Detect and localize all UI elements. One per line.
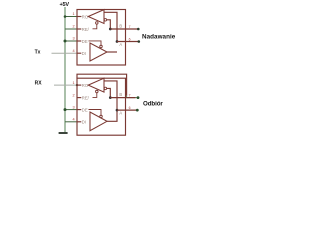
node B2 end dot [137, 96, 140, 99]
U2 receiver A-input wire [104, 81, 117, 110]
U1 DE enable line [89, 41, 102, 45]
U2 pin 4 stub [77, 121, 81, 123]
U1 node A junction [116, 40, 119, 43]
svg-text:RX: RX [35, 80, 43, 86]
U1 DE enable bubble [100, 45, 103, 48]
svg-text:A: A [119, 42, 122, 47]
svg-text:2: 2 [72, 25, 74, 29]
wire rail to U2 pin 4 [65, 121, 78, 123]
U1 pin B wire (Nadawanie B) [110, 28, 138, 30]
U1 driver output wire [107, 51, 117, 53]
svg-text:1: 1 [72, 81, 74, 85]
svg-text:+5V: +5V [59, 2, 69, 8]
+5V rail wire [64, 7, 66, 132]
U1 receiver triangle [88, 10, 104, 24]
U1 pin 1 stub [77, 16, 81, 18]
wire +5V rail to U1 pin 1 [65, 16, 81, 18]
U2 pin A wire (Odbior A) [117, 109, 137, 111]
svg-text:A: A [119, 111, 122, 116]
svg-text:7: 7 [129, 25, 131, 29]
U2 receiver triangle [88, 78, 104, 92]
U1 box (MAX485 transmitter) [77, 10, 126, 66]
U2 RE enable bubble [96, 90, 99, 93]
wire loop green tail to node B2 [127, 96, 138, 98]
svg-text:B: B [119, 92, 122, 97]
node B end dot [137, 28, 140, 31]
U2 driver output wire [107, 110, 117, 121]
U1 receiver input bubble [104, 19, 107, 22]
U2 driver triangle [90, 112, 107, 131]
svg-text:Tx: Tx [35, 50, 41, 56]
svg-text:DI: DI [82, 51, 86, 56]
U2 DE enable line [89, 110, 102, 116]
U1 RE enable bubble [96, 22, 99, 25]
U2 RE enable line [93, 93, 97, 98]
U1 receiver A-input wire [104, 12, 117, 41]
U2 node A junction [116, 109, 119, 112]
Tx wire to U1 pin 4 [52, 52, 78, 54]
svg-text:B: B [119, 24, 122, 29]
svg-text:DE: DE [82, 39, 88, 44]
svg-text:1: 1 [72, 12, 74, 16]
svg-text:2: 2 [72, 93, 74, 97]
U1 node B junction [109, 28, 112, 31]
svg-text:6: 6 [129, 37, 131, 41]
U1 pin 2 stub [77, 28, 81, 30]
svg-text:Nadawanie: Nadawanie [142, 33, 176, 40]
junction rail/U2 pin3 [64, 108, 67, 111]
svg-text:3: 3 [72, 105, 74, 109]
U2 DE enable bubble [100, 115, 103, 118]
svg-text:Odbiór: Odbiór [143, 101, 163, 108]
node A2 end dot [136, 109, 139, 112]
svg-text:7: 7 [129, 93, 131, 97]
svg-text:RE/: RE/ [82, 95, 90, 100]
U2 node B junction [109, 96, 112, 99]
wire +5V rail to U1 pin 2 [65, 28, 78, 30]
ground [59, 132, 68, 134]
junction RX/pin1 [76, 84, 78, 86]
svg-text:DI: DI [82, 120, 86, 125]
U2 box (MAX485 receiver) [77, 78, 126, 135]
U2 pin 2 stub [77, 97, 81, 99]
U2 pin B wire (Odbior B) [110, 97, 135, 99]
U2 receiver B-input wire [107, 88, 111, 97]
junction rail/pin1 [64, 15, 67, 18]
node A end dot [138, 40, 141, 43]
RX wire to U2 pin 1 [54, 84, 78, 86]
svg-text:3: 3 [72, 37, 74, 41]
wire U2 pin2/B loop (vertical left) [77, 74, 127, 96]
U1 driver triangle [90, 43, 107, 61]
svg-text:RE/: RE/ [82, 27, 90, 32]
svg-text:6: 6 [129, 106, 131, 110]
wire +5V rail to U2 pin 3 [65, 109, 78, 111]
U1 receiver B-input wire [107, 20, 111, 29]
U1 pin A wire (Nadawanie A) [117, 41, 139, 43]
U1 RE enable line [93, 24, 97, 29]
U1 pin 3 stub [77, 40, 81, 42]
U2 pin 3 stub [77, 109, 81, 111]
U2 pin 1 stub [77, 84, 81, 86]
svg-text:4: 4 [72, 49, 74, 53]
junction rail/pin3 [64, 40, 67, 43]
U1 pin 4 stub [77, 52, 81, 54]
U2 receiver input bubble [104, 87, 107, 90]
svg-text:DE: DE [82, 107, 88, 112]
svg-text:4: 4 [72, 118, 74, 122]
wire +5V rail to U1 pin 3 [65, 40, 78, 42]
